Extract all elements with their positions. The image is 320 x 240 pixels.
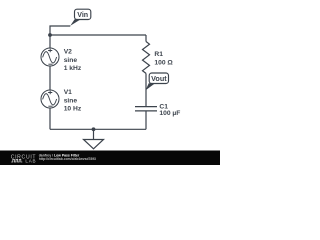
svg-text:V1: V1 [64,89,72,96]
footer bar [0,151,220,166]
net flag Vin [70,9,91,26]
label V1 sine 10 Hz [64,89,82,113]
node junction Vin/V2/R1 [48,33,52,37]
svg-text:R1: R1 [154,51,163,58]
svg-text:100 µF: 100 µF [159,110,180,117]
svg-text:http://circuitlab.com/c/ab4wvs: http://circuitlab.com/c/ab4wvsd7893 [39,157,96,161]
svg-text:V2: V2 [64,49,72,56]
svg-text:Vin: Vin [77,11,88,19]
ground [84,129,104,149]
voltage source V2 [41,48,59,66]
wire: V1 bottom to bottom rail [49,108,51,129]
wire: V2 bottom to V1 top [49,66,51,90]
label V2 sine 1 kHz [64,49,82,73]
svg-text:10 Hz: 10 Hz [64,106,82,113]
svg-text:1 kHz: 1 kHz [64,65,82,72]
CircuitLab logo [11,154,37,163]
svg-text:sine: sine [64,98,78,105]
wire: top rail to R1 [50,34,146,36]
svg-text:100 Ω: 100 Ω [154,59,173,66]
net flag Vout [146,73,169,90]
svg-text:sine: sine [64,57,78,64]
capacitor C1 [135,107,157,130]
label R1 100 ohm [154,51,173,66]
wire: Vin flag stub [50,26,70,35]
svg-text:Vout: Vout [151,74,167,83]
node junction ground [92,127,96,131]
wire: junction down to V2 top [49,35,51,48]
voltage source V1 [41,90,59,108]
label C1 100 uF [159,104,180,118]
svg-text:LAB: LAB [25,159,36,164]
wire: bottom rail [50,128,146,130]
resistor R1 [143,35,150,107]
